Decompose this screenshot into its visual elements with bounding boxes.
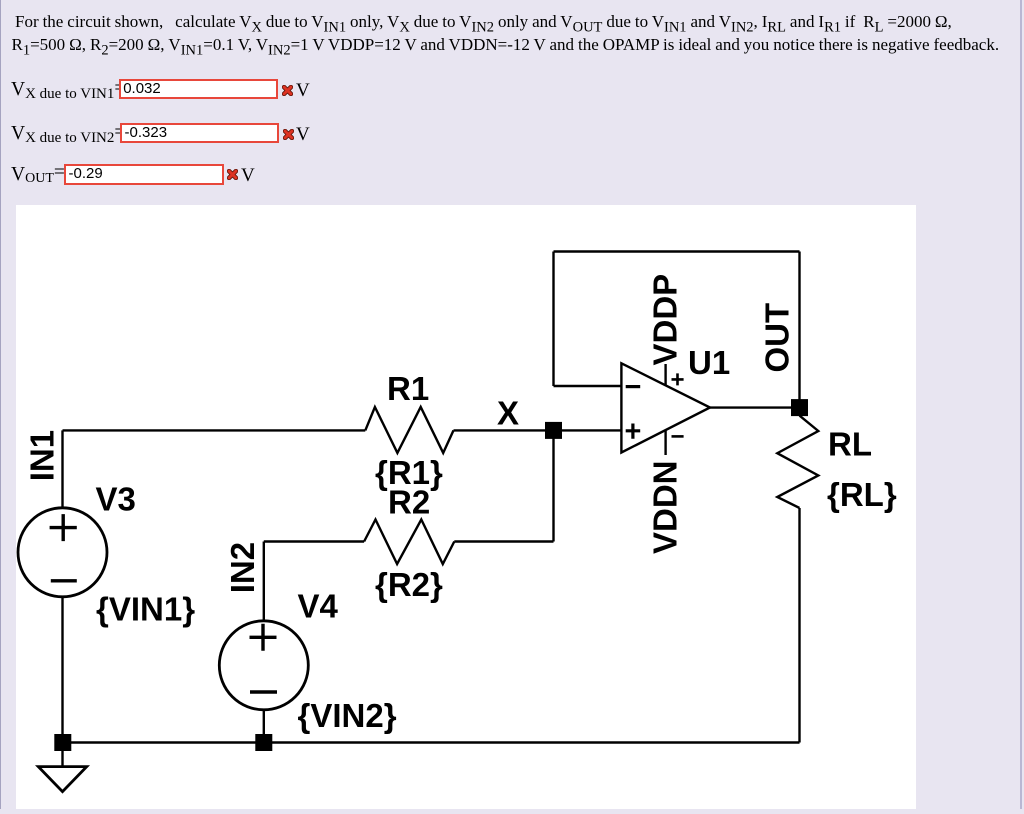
svg-text:{VIN1}: {VIN1} (96, 591, 195, 628)
svg-text:IN2: IN2 (224, 542, 261, 593)
svg-text:V3: V3 (96, 481, 136, 518)
wire IN1 top (63, 429, 366, 431)
resistor RL (777, 416, 818, 508)
wire feedback top (554, 250, 800, 252)
svg-text:OUT: OUT (759, 303, 796, 373)
wire ground stub (61, 750, 63, 766)
wire X to opamp plus input (554, 429, 622, 431)
answer row 1 label (11, 79, 125, 101)
svg-text:V4: V4 (298, 588, 339, 625)
V4 plus (250, 624, 277, 651)
resistor R1 (365, 407, 453, 453)
answer row 1 unit (296, 80, 310, 102)
wire IN2 vertical (263, 542, 265, 621)
answer row 1 input (119, 79, 279, 99)
node X junction square (545, 422, 562, 439)
wire R2 right (454, 540, 553, 542)
opamp plus input mark (626, 424, 641, 439)
node V4 junction square (255, 734, 272, 751)
wire IN2 horizontal (264, 540, 364, 542)
wire bottom rail (63, 741, 800, 743)
answer row 3 label (11, 164, 65, 186)
op-amp U1 triangle (621, 363, 710, 452)
node ground junction square (54, 734, 71, 751)
svg-text:RL: RL (828, 426, 872, 463)
schematic white panel (16, 205, 916, 809)
answer row 3 unit (241, 165, 255, 187)
wire R1 to X (454, 429, 554, 431)
svg-text:VDDN: VDDN (647, 460, 684, 554)
voltage source V3 circle (18, 508, 107, 597)
VDDP pin (664, 364, 666, 386)
wire left vertical upper (61, 430, 63, 508)
header line 2 (12, 35, 1000, 55)
svg-text:U1: U1 (688, 344, 730, 381)
answer row 1 wrong-mark (282, 85, 293, 96)
VDDP plus mark (672, 373, 684, 385)
svg-text:{R2}: {R2} (375, 566, 443, 603)
wire OUT vertical (798, 252, 800, 408)
answer row 2 unit (296, 124, 310, 146)
svg-text:R2: R2 (388, 484, 430, 521)
svg-text:IN1: IN1 (24, 430, 61, 481)
wire opamp output (710, 406, 800, 408)
wire X down to R2 (552, 430, 554, 541)
node OUT junction square (791, 399, 808, 416)
wire left vertical lower (61, 597, 63, 743)
answer row 3 wrong-mark (227, 169, 238, 180)
wire V4 bottom (263, 710, 265, 743)
svg-text:X: X (497, 395, 519, 432)
VDDN pin (664, 430, 666, 455)
svg-text:R1: R1 (387, 370, 429, 407)
left page edge line (0, 0, 1, 809)
voltage source V4 circle (219, 621, 308, 710)
answer row 3 input (64, 164, 224, 185)
answer row 2 wrong-mark (283, 129, 294, 140)
right scrollbar edge (1020, 0, 1022, 809)
wire feedback to minus input (554, 385, 622, 387)
V3 plus (50, 514, 77, 541)
answer row 2 input (120, 123, 279, 143)
VDDN minus mark (672, 435, 684, 438)
header line 1 (15, 12, 952, 32)
wire feedback vertical (552, 252, 554, 387)
ground symbol (38, 767, 86, 792)
opamp minus input dash (626, 385, 641, 388)
V4 minus (250, 690, 277, 693)
svg-text:VDDP: VDDP (647, 274, 684, 366)
wire RL bottom (798, 508, 800, 743)
svg-text:{RL}: {RL} (827, 476, 897, 513)
answer row 2 label (11, 123, 125, 145)
V3 minus (51, 579, 77, 582)
resistor R2 (364, 520, 454, 565)
svg-text:{VIN2}: {VIN2} (298, 697, 397, 734)
